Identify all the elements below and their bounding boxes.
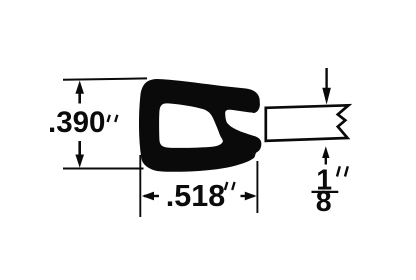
svg-text:.518: .518 — [166, 179, 225, 213]
panel strip with break symbol — [266, 105, 349, 141]
svg-text:8: 8 — [316, 186, 332, 218]
dim .518 left arrow — [144, 195, 159, 197]
trim profile body (black rubber edge trim cross-section) — [139, 79, 261, 172]
dim .390 top extension line — [63, 78, 147, 79]
dim .390 lower arrow — [78, 141, 81, 158]
dim .518 right arrow — [241, 195, 255, 197]
panel lower arrow (up) — [325, 155, 327, 165]
dim .518 left extension line — [139, 155, 141, 217]
svg-text:.390: .390 — [48, 106, 105, 139]
dim .390 upper arrow — [78, 89, 81, 104]
panel upper arrow (down) — [325, 68, 327, 88]
dim .390 quote ticks — [108, 115, 118, 122]
dim .390 bottom extension line — [63, 168, 144, 170]
dim .518 right extension line — [256, 161, 258, 213]
dim .518 quote ticks — [225, 182, 235, 190]
